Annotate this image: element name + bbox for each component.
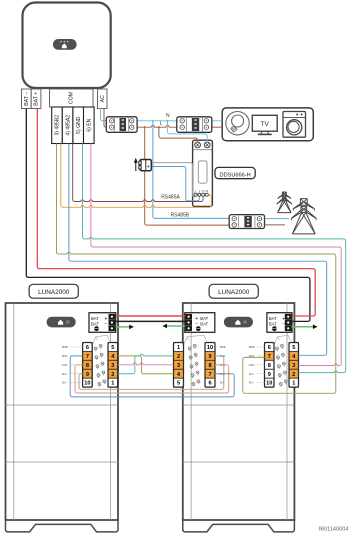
svg-text:3: 3 xyxy=(177,363,180,369)
svg-text:5: 5 xyxy=(292,345,295,351)
svg-text:BAT: BAT xyxy=(91,322,99,327)
svg-text:EN−: EN− xyxy=(220,381,226,385)
svg-text:EN−: EN− xyxy=(62,381,68,385)
svg-text:GND: GND xyxy=(62,363,68,367)
svg-text:2: 2 xyxy=(111,372,114,378)
svg-text:GND: GND xyxy=(249,363,255,367)
svg-text:−: − xyxy=(195,321,198,327)
svg-text:7: 7 xyxy=(86,354,89,360)
svg-text:LUNA2000: LUNA2000 xyxy=(38,289,70,296)
svg-text:BAT: BAT xyxy=(200,322,208,327)
svg-text:BAT −: BAT − xyxy=(24,92,30,106)
svg-text:6) EN: 6) EN xyxy=(87,118,93,131)
svg-text:1: 1 xyxy=(177,345,180,351)
svg-text:10: 10 xyxy=(266,381,272,387)
svg-text:RS485B: RS485B xyxy=(170,212,189,218)
svg-text:BAT: BAT xyxy=(269,322,277,327)
svg-text:485A: 485A xyxy=(61,354,67,358)
svg-text:LUNA2000: LUNA2000 xyxy=(218,289,250,296)
svg-text:7: 7 xyxy=(208,372,211,378)
svg-text:9: 9 xyxy=(208,354,211,360)
svg-text:BAT: BAT xyxy=(269,316,277,321)
svg-text:1: 1 xyxy=(292,381,295,387)
svg-text:10: 10 xyxy=(84,381,90,387)
svg-text:4) 485A2: 4) 485A2 xyxy=(65,115,71,136)
svg-text:2: 2 xyxy=(292,372,295,378)
svg-text:RS485A: RS485A xyxy=(161,195,180,201)
svg-text:6: 6 xyxy=(268,345,271,351)
svg-text:3: 3 xyxy=(292,363,295,369)
svg-text:9: 9 xyxy=(268,372,271,378)
svg-text:8: 8 xyxy=(86,363,89,369)
svg-text:N: N xyxy=(166,113,170,119)
svg-text:COM: COM xyxy=(69,92,75,104)
svg-text:DDSU666-H: DDSU666-H xyxy=(220,172,251,178)
svg-text:IB01140004: IB01140004 xyxy=(319,527,349,533)
svg-text:TV: TV xyxy=(261,121,270,128)
svg-text:9: 9 xyxy=(86,372,89,378)
svg-text:3: 3 xyxy=(111,363,114,369)
svg-text:BAT: BAT xyxy=(91,316,99,321)
svg-text:BAT +: BAT + xyxy=(34,92,40,106)
svg-text:485B: 485B xyxy=(248,345,254,349)
svg-text:6: 6 xyxy=(208,381,211,387)
svg-text:5: 5 xyxy=(111,345,114,351)
svg-text:AC: AC xyxy=(100,95,106,102)
svg-text:5) GND: 5) GND xyxy=(76,116,82,134)
svg-text:10: 10 xyxy=(207,345,213,351)
svg-text:EN+: EN+ xyxy=(62,372,68,376)
svg-text:BAT: BAT xyxy=(200,316,208,321)
svg-text:1: 1 xyxy=(111,381,114,387)
svg-text:485B: 485B xyxy=(61,345,67,349)
svg-text:3) 485B2: 3) 485B2 xyxy=(55,115,61,136)
svg-text:5: 5 xyxy=(177,381,180,387)
svg-text:485B: 485B xyxy=(219,345,225,349)
svg-text:EN+: EN+ xyxy=(249,372,255,376)
svg-text:2: 2 xyxy=(177,354,180,360)
svg-text:8: 8 xyxy=(208,363,211,369)
svg-text:L: L xyxy=(160,121,163,127)
svg-text:−: − xyxy=(105,321,108,327)
svg-text:7: 7 xyxy=(268,354,271,360)
svg-text:8: 8 xyxy=(268,363,271,369)
svg-text:6: 6 xyxy=(86,345,89,351)
svg-text:EN−: EN− xyxy=(249,381,255,385)
